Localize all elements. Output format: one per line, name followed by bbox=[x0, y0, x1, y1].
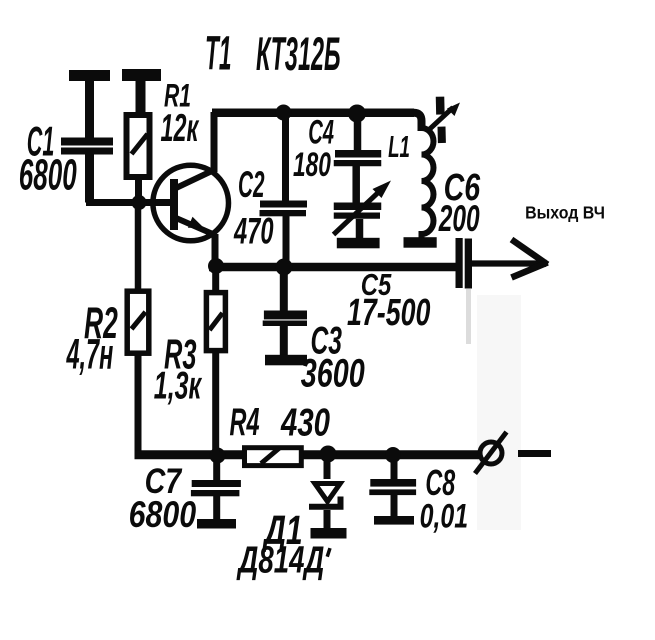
svg-text:Выход ВЧ: Выход ВЧ bbox=[525, 203, 605, 223]
svg-text:КТ312Б: КТ312Б bbox=[256, 28, 341, 81]
svg-text:Т1: Т1 bbox=[205, 28, 232, 81]
svg-text:С2: С2 bbox=[238, 163, 265, 205]
svg-text:0,01: 0,01 bbox=[420, 498, 469, 536]
svg-text:R4: R4 bbox=[230, 401, 260, 444]
svg-text:6800: 6800 bbox=[19, 152, 77, 200]
svg-text:470: 470 bbox=[233, 211, 273, 252]
svg-text:430: 430 bbox=[280, 401, 330, 444]
svg-text:12к: 12к bbox=[161, 107, 200, 150]
svg-text:L1: L1 bbox=[388, 129, 410, 164]
svg-text:17-500: 17-500 bbox=[347, 292, 430, 334]
svg-text:200: 200 bbox=[438, 197, 480, 239]
svg-text:1,3к: 1,3к bbox=[154, 365, 203, 408]
svg-text:Д814Д: Д814Д bbox=[236, 538, 324, 581]
svg-text:6800: 6800 bbox=[129, 493, 197, 535]
svg-text:3600: 3600 bbox=[301, 351, 365, 395]
svg-text:180: 180 bbox=[293, 146, 331, 184]
svg-text:4,7н: 4,7н bbox=[66, 331, 113, 379]
